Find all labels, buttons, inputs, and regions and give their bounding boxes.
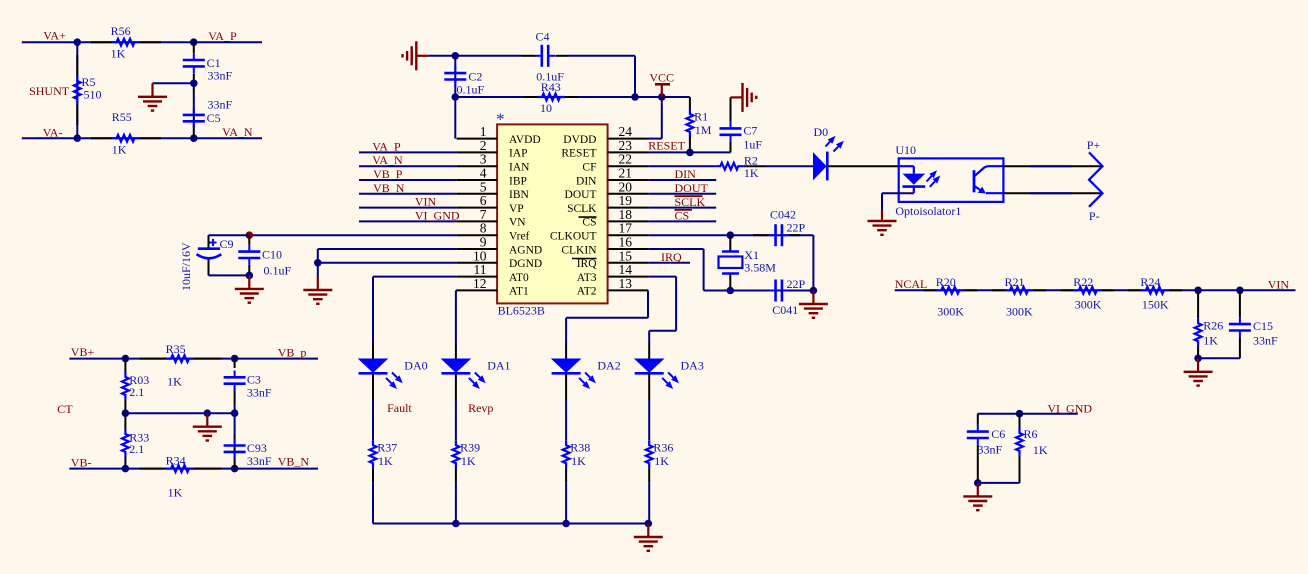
wire R36 bottom: [648, 468, 650, 483]
svg-text:R37: R37: [377, 440, 397, 454]
wire C4 right corner down: [634, 56, 636, 97]
wire net VI_GND: [359, 220, 457, 222]
ground NCAL: [1197, 358, 1199, 372]
svg-text:VA_N: VA_N: [372, 153, 403, 167]
capacitor C9 electrolytic: [208, 235, 210, 249]
pin 12 AT1: [457, 289, 498, 291]
wire LED ground rail: [373, 523, 648, 525]
wire AT3 route: [648, 276, 676, 278]
wire P+ line: [1003, 165, 1102, 167]
wire net DIN: [648, 179, 716, 181]
svg-text:10: 10: [473, 248, 487, 263]
wire net DOUT: [648, 193, 716, 195]
resistor R38: [563, 440, 570, 468]
svg-text:DVDD: DVDD: [563, 134, 596, 146]
svg-text:AVDD: AVDD: [509, 134, 541, 146]
wire R26/C15 bottom: [1198, 357, 1240, 359]
svg-text:VB+: VB+: [71, 345, 95, 359]
svg-text:VA_P: VA_P: [372, 139, 401, 153]
wire VCC rail: [455, 96, 690, 98]
svg-text:R38: R38: [570, 440, 590, 454]
overline label SCLK: [675, 195, 703, 197]
svg-text:DGND: DGND: [509, 258, 542, 270]
wire R2 to D0: [765, 165, 813, 167]
LED DA0: [358, 359, 389, 373]
svg-text:U10: U10: [895, 143, 916, 157]
svg-text:C5: C5: [207, 111, 221, 125]
svg-text:P-: P-: [1089, 209, 1100, 223]
resistor R26: [1197, 290, 1199, 318]
wire VB+ rail: [69, 358, 318, 360]
wire NCAL rail: [895, 289, 1296, 291]
svg-text:SHUNT: SHUNT: [29, 84, 70, 98]
wire D0 to U10: [829, 165, 899, 167]
svg-text:R39: R39: [460, 440, 480, 454]
svg-text:DA2: DA2: [597, 358, 620, 372]
capacitor C10: [248, 235, 250, 245]
svg-text:5: 5: [480, 179, 487, 194]
pin 13 AT2: [608, 289, 649, 291]
svg-text:NCAL: NCAL: [895, 277, 928, 291]
svg-text:22P: 22P: [787, 221, 806, 235]
U10 LED return wire: [882, 192, 914, 194]
svg-text:1K: 1K: [168, 485, 183, 499]
svg-text:2.1: 2.1: [129, 385, 144, 399]
svg-text:IRQ: IRQ: [577, 258, 598, 270]
svg-text:VI_GND: VI_GND: [1047, 402, 1092, 416]
svg-text:CS: CS: [582, 217, 596, 229]
wire IRQ: [648, 262, 690, 264]
LED DA2: [551, 359, 582, 373]
svg-text:C3: C3: [247, 373, 261, 387]
resistor R20: [923, 289, 936, 291]
svg-text:D0: D0: [814, 125, 829, 139]
resistor R21: [992, 289, 1005, 291]
node RESET: [686, 149, 694, 157]
svg-text:DIN: DIN: [576, 175, 597, 187]
connector P+/P-: [1089, 152, 1103, 206]
wire shunt vertical: [76, 42, 78, 138]
crystal X1: [729, 235, 731, 251]
LED DA3: [634, 359, 665, 373]
svg-text:150K: 150K: [1142, 297, 1169, 311]
pin 16 CLKIN: [608, 248, 649, 250]
svg-text:1K: 1K: [378, 454, 393, 468]
wire net VB_N: [359, 193, 457, 195]
wire DVDD hookup: [661, 97, 663, 139]
svg-text:1K: 1K: [571, 454, 586, 468]
svg-text:R36: R36: [653, 440, 673, 454]
op U10 box: [899, 158, 1004, 202]
svg-text:33nF: 33nF: [247, 386, 272, 400]
svg-text:Optoisolator1: Optoisolator1: [895, 204, 961, 218]
svg-text:P+: P+: [1087, 138, 1101, 152]
wire top rail C4: [428, 55, 522, 57]
svg-text:3: 3: [480, 152, 487, 167]
svg-text:10: 10: [540, 101, 552, 115]
wire AT0 route: [373, 276, 457, 278]
pin 17 CLKOUT: [608, 234, 649, 236]
wire AGND: [318, 248, 457, 250]
wire C3/C93 vertical: [234, 359, 236, 368]
svg-text:R20: R20: [936, 275, 956, 289]
svg-text:CLKIN: CLKIN: [561, 244, 597, 256]
svg-text:R22: R22: [1073, 275, 1093, 289]
svg-text:C15: C15: [1253, 319, 1273, 333]
svg-text:VA_N: VA_N: [222, 125, 253, 139]
wire R39 bottom: [455, 468, 457, 483]
resistor R34: [139, 468, 166, 470]
wire VI_GND rail: [978, 413, 1078, 415]
svg-text:Revp: Revp: [468, 401, 493, 415]
pin 6 VP: [457, 207, 498, 209]
ground: [151, 83, 153, 97]
svg-text:R56: R56: [111, 24, 131, 38]
svg-text:33nF: 33nF: [208, 98, 233, 112]
pin 24 DVDD: [608, 138, 649, 140]
svg-text:510: 510: [84, 88, 102, 102]
overline label CS: [675, 209, 693, 211]
ground U10: [881, 210, 883, 221]
wire net CS: [648, 220, 716, 222]
resistor R33: [124, 413, 126, 429]
wire net VB_P: [359, 179, 457, 181]
ground C10: [248, 275, 250, 289]
ground rotated left: [416, 55, 428, 57]
wire VA- bottom rail: [22, 137, 262, 139]
svg-text:19: 19: [619, 193, 633, 208]
node AGND/DGND: [314, 259, 322, 267]
svg-text:C10: C10: [262, 247, 282, 261]
svg-text:IBN: IBN: [509, 189, 530, 201]
svg-text:DOUT: DOUT: [565, 189, 597, 201]
svg-text:VB_N: VB_N: [373, 181, 405, 195]
resistor R43: [524, 96, 537, 98]
svg-text:VA_P: VA_P: [208, 29, 237, 43]
wire C042 right corner: [812, 235, 814, 290]
svg-text:0.1uF: 0.1uF: [264, 263, 292, 277]
resistor R56: [91, 41, 112, 43]
svg-text:R26: R26: [1203, 318, 1223, 332]
svg-text:15: 15: [619, 248, 633, 263]
svg-text:R34: R34: [166, 454, 186, 468]
wire VA+ top rail: [22, 41, 262, 43]
svg-text:22: 22: [619, 152, 633, 167]
svg-text:16: 16: [619, 235, 633, 250]
svg-text:RESET: RESET: [648, 138, 685, 152]
wire to R1: [689, 97, 691, 109]
svg-text:SCLK: SCLK: [567, 203, 597, 215]
svg-text:C4: C4: [536, 29, 550, 43]
LED DA1: [441, 359, 472, 373]
capacitor C7: [730, 142, 732, 153]
node VA_P junction: [190, 38, 198, 46]
svg-text:DA3: DA3: [681, 358, 704, 372]
wire CF: [648, 165, 715, 167]
wire Vref top rail: [209, 234, 250, 236]
svg-text:C7: C7: [743, 123, 757, 137]
pin 19 SCLK: [608, 207, 649, 209]
wire X1 bottom rail: [704, 290, 814, 292]
resistor R2: [715, 163, 743, 170]
resistor R55: [91, 137, 112, 139]
capacitor C2: [454, 66, 456, 73]
svg-text:13: 13: [619, 276, 633, 291]
svg-text:DIN: DIN: [675, 167, 697, 181]
svg-text:1M: 1M: [695, 123, 712, 137]
capacitor C042: [753, 234, 769, 236]
wire Vref: [249, 234, 456, 236]
svg-text:VCC: VCC: [649, 71, 674, 85]
svg-text:R35: R35: [166, 342, 186, 356]
capacitor C6: [977, 414, 979, 425]
svg-text:22P: 22P: [787, 277, 806, 291]
wire R38 bottom: [565, 468, 567, 483]
svg-text:C9: C9: [220, 237, 234, 251]
svg-text:RESET: RESET: [561, 148, 596, 160]
pin 22 CF: [608, 165, 649, 167]
resistor R39: [453, 440, 460, 468]
svg-text:C2: C2: [468, 69, 482, 83]
svg-text:VB_N: VB_N: [278, 455, 310, 469]
pin 20 DOUT: [608, 193, 649, 195]
node C2 top: [452, 52, 460, 60]
ground rotated right C7: [731, 96, 743, 98]
svg-text:20: 20: [619, 179, 633, 194]
wire RESET: [648, 151, 731, 153]
wire DA2 cathode: [565, 374, 567, 401]
svg-text:33nF: 33nF: [247, 454, 272, 468]
wire DA1 cathode: [455, 374, 457, 401]
IC U-BL6523B body: [497, 124, 607, 303]
svg-text:18: 18: [619, 207, 633, 222]
wire C2 vertical: [454, 56, 456, 139]
svg-text:1: 1: [480, 124, 487, 139]
ground CT mid: [206, 413, 208, 427]
wire AGND down: [317, 249, 319, 277]
resistor R24: [1128, 289, 1141, 291]
svg-text:21: 21: [619, 166, 633, 181]
svg-text:24: 24: [619, 124, 633, 139]
svg-text:4: 4: [480, 166, 487, 181]
wire P- line: [1003, 192, 1102, 194]
node X1 bottom: [727, 287, 735, 295]
svg-text:33nF: 33nF: [208, 69, 233, 83]
pin 7 VN: [457, 220, 498, 222]
svg-text:VI_GND: VI_GND: [415, 208, 460, 222]
pin 21 DIN: [608, 179, 649, 181]
ground AGND: [317, 277, 319, 290]
pin 4 IBP: [457, 179, 498, 181]
svg-text:VB_P: VB_P: [373, 167, 403, 181]
svg-text:VB_p: VB_p: [278, 346, 307, 360]
wire DA3 cathode: [648, 374, 650, 401]
svg-text:DA0: DA0: [404, 358, 427, 372]
svg-text:2.1: 2.1: [129, 442, 144, 456]
wire VB- rail: [69, 468, 318, 470]
node C10 bottom: [246, 272, 254, 280]
pin 15 IRQ: [608, 262, 649, 264]
ground VI_GND: [977, 483, 979, 497]
svg-text:6: 6: [480, 193, 487, 208]
resistor R37: [370, 440, 377, 468]
pin 1 AVDD: [457, 138, 498, 140]
svg-text:IRQ: IRQ: [661, 250, 682, 264]
overline CS pin18: [579, 216, 597, 218]
wire C1/C5 vertical: [193, 42, 195, 53]
svg-text:VP: VP: [509, 203, 524, 215]
wire R37 bottom: [372, 468, 374, 483]
resistor R1: [687, 109, 694, 137]
pin 5 IBN: [457, 193, 498, 195]
svg-text:1uF: 1uF: [743, 137, 762, 151]
wire C9 bottom rail: [209, 274, 250, 276]
wire C6/R6 bottom: [978, 482, 1020, 484]
capacitor C15: [1239, 290, 1241, 317]
svg-text:8: 8: [480, 221, 487, 236]
wire DA3 anode: [648, 343, 650, 359]
svg-text:VIN: VIN: [1268, 278, 1290, 292]
svg-text:CLKOUT: CLKOUT: [550, 231, 597, 243]
capacitor C3: [234, 371, 236, 378]
wire DA1 anode: [455, 343, 457, 359]
wire CLKOUT: [648, 234, 813, 236]
power VCC: [655, 83, 670, 86]
svg-text:Vref: Vref: [509, 231, 530, 243]
svg-text:9: 9: [480, 235, 487, 250]
svg-text:IAP: IAP: [509, 148, 528, 160]
svg-text:VN: VN: [509, 217, 526, 229]
svg-text:BL6523B: BL6523B: [498, 303, 545, 317]
svg-text:1K: 1K: [112, 143, 127, 157]
wire AT1 route: [455, 289, 458, 291]
svg-text:1K: 1K: [1033, 443, 1048, 457]
svg-text:DA1: DA1: [487, 358, 510, 372]
ground crystal: [812, 291, 814, 305]
svg-text:23: 23: [619, 138, 633, 153]
pin 23 RESET: [608, 151, 649, 153]
pin 18 CS: [608, 220, 649, 222]
resistor R6: [1019, 414, 1021, 428]
pin 14 AT3: [608, 276, 649, 278]
node C2 bottom: [452, 93, 460, 101]
svg-text:R24: R24: [1140, 275, 1160, 289]
wire ground stub: [153, 82, 194, 84]
capacitor C041: [769, 290, 776, 292]
capacitor C4: [535, 55, 542, 57]
svg-text:IAN: IAN: [509, 162, 530, 174]
svg-text:DOUT: DOUT: [675, 181, 709, 195]
svg-text:1K: 1K: [111, 47, 126, 61]
pin 9 AGND: [457, 248, 498, 250]
resistor R36: [646, 440, 653, 468]
node DVDD rail: [631, 93, 639, 101]
svg-text:3.58M: 3.58M: [744, 260, 776, 274]
node C041 right: [810, 287, 818, 295]
svg-text:300K: 300K: [1006, 305, 1033, 319]
svg-text:300K: 300K: [937, 305, 964, 319]
svg-text:C041: C041: [772, 303, 798, 317]
svg-text:1K: 1K: [654, 454, 669, 468]
svg-text:AT1: AT1: [509, 286, 529, 298]
wire DA0 anode: [372, 343, 374, 359]
svg-text:VB-: VB-: [71, 456, 92, 470]
svg-text:33nF: 33nF: [1253, 333, 1278, 347]
svg-text:AT3: AT3: [577, 272, 597, 284]
svg-text:R6: R6: [1024, 427, 1038, 441]
resistor R35: [139, 358, 166, 360]
svg-text:11: 11: [474, 262, 487, 277]
wire DA0 cathode: [372, 374, 374, 401]
wire mid rail: [125, 412, 235, 414]
svg-text:R55: R55: [112, 110, 132, 124]
svg-text:12: 12: [473, 276, 487, 291]
svg-text:VA+: VA+: [43, 29, 66, 43]
svg-text:14: 14: [619, 262, 633, 277]
overline IRQ pin15: [572, 258, 597, 260]
wire AT2 route: [647, 289, 649, 291]
svg-text:C6: C6: [991, 427, 1005, 441]
resistor R22: [1061, 289, 1074, 291]
node VCC: [658, 93, 666, 101]
svg-text:2: 2: [480, 138, 487, 153]
U10 phototransistor: [973, 170, 976, 192]
node VA+ junction: [74, 38, 82, 46]
svg-text:7: 7: [480, 207, 487, 222]
svg-text:R1: R1: [694, 109, 708, 123]
pin 11 AT0: [457, 276, 498, 278]
ground LED rail: [647, 524, 649, 538]
resistor R5: [76, 55, 78, 76]
svg-text:1K: 1K: [1203, 333, 1218, 347]
svg-text:300K: 300K: [1075, 297, 1102, 311]
svg-text:AGND: AGND: [509, 244, 542, 256]
wire DA2 anode: [565, 343, 567, 359]
node C1-C5 mid: [190, 80, 198, 88]
wire CLKIN: [648, 248, 704, 250]
pin 10 DGND: [457, 262, 498, 264]
svg-text:1K: 1K: [744, 166, 759, 180]
wire net VA_P: [359, 151, 457, 153]
svg-text:R21: R21: [1005, 275, 1025, 289]
svg-text:1K: 1K: [167, 374, 182, 388]
node Vref maroon: [246, 231, 254, 239]
svg-text:17: 17: [619, 221, 633, 236]
wire net VA_N: [359, 165, 457, 167]
svg-text:R43: R43: [541, 80, 561, 94]
U10 internal LED: [899, 165, 914, 167]
svg-text:CT: CT: [57, 402, 73, 416]
wire net VIN: [359, 207, 457, 209]
svg-text:AT0: AT0: [509, 272, 529, 284]
svg-text:VIN: VIN: [415, 195, 437, 209]
LED D0: [813, 152, 827, 180]
capacitor C5: [193, 108, 195, 115]
capacitor C1: [193, 53, 195, 60]
svg-text:33nF: 33nF: [978, 442, 1003, 456]
svg-text:Fault: Fault: [387, 401, 412, 415]
wire net SCLK: [648, 207, 716, 209]
svg-text:*: *: [496, 110, 505, 129]
svg-text:VA-: VA-: [43, 125, 63, 139]
svg-text:0.1uF: 0.1uF: [457, 83, 485, 97]
svg-text:10uF/16V: 10uF/16V: [179, 242, 193, 291]
svg-text:1K: 1K: [461, 454, 476, 468]
pin 2 IAP: [457, 151, 498, 153]
svg-text:CF: CF: [582, 162, 596, 174]
wire DGND: [318, 262, 457, 264]
svg-text:C042: C042: [770, 207, 796, 221]
